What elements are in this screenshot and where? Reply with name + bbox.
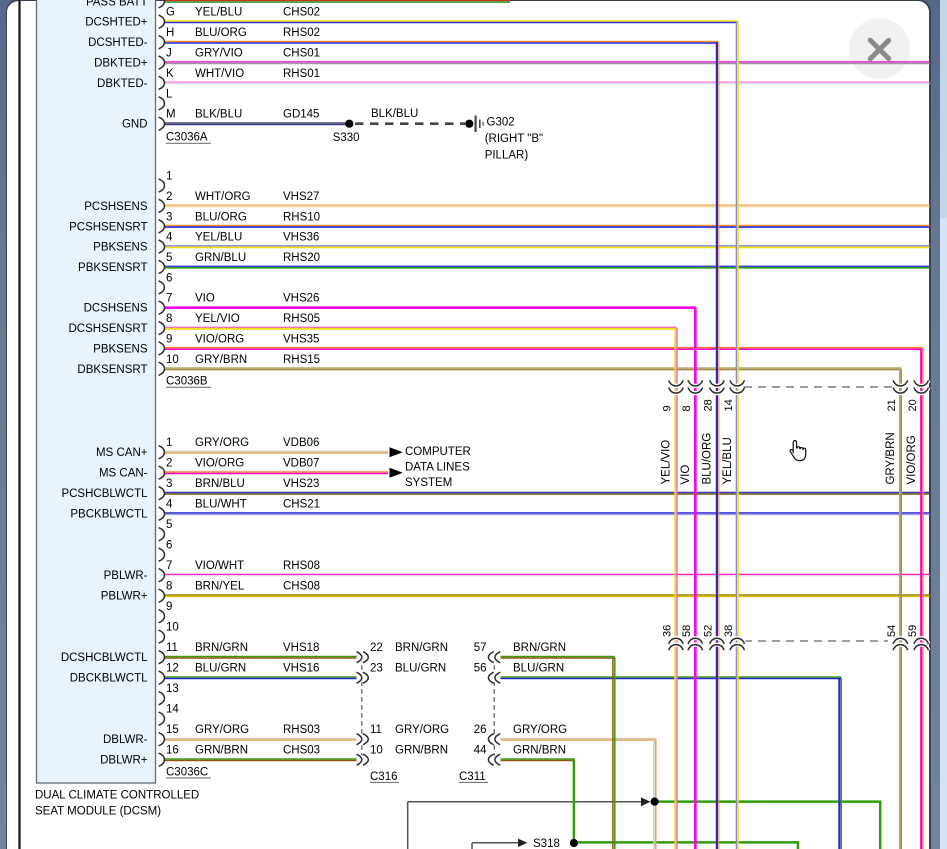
svg-text:BLU/ORG: BLU/ORG (702, 433, 714, 485)
svg-text:VIO: VIO (195, 293, 215, 305)
svg-text:44: 44 (474, 745, 487, 757)
svg-text:DATA LINES: DATA LINES (405, 462, 470, 474)
svg-text:VHS18: VHS18 (283, 642, 319, 654)
svg-text:VHS26: VHS26 (283, 293, 319, 305)
svg-text:MS CAN-: MS CAN- (99, 468, 148, 480)
svg-text:(RIGHT "B": (RIGHT "B" (485, 133, 543, 145)
svg-text:4: 4 (166, 232, 173, 244)
svg-text:3: 3 (166, 478, 172, 490)
svg-text:8: 8 (166, 313, 172, 325)
svg-text:DCSHTED-: DCSHTED- (88, 37, 148, 49)
svg-text:PBCKBLWCTL: PBCKBLWCTL (70, 509, 148, 521)
svg-text:BRN/GRN: BRN/GRN (513, 642, 566, 654)
svg-text:GRY/ORG: GRY/ORG (195, 437, 249, 449)
svg-text:21: 21 (886, 399, 898, 411)
svg-text:VIO/ORG: VIO/ORG (195, 458, 244, 470)
svg-text:1: 1 (166, 171, 172, 183)
svg-text:56: 56 (474, 663, 487, 675)
svg-text:DBLWR-: DBLWR- (103, 734, 148, 746)
svg-text:15: 15 (166, 724, 179, 736)
svg-text:9: 9 (662, 405, 674, 411)
svg-text:VIO/WHT: VIO/WHT (195, 560, 244, 572)
svg-text:DCSHTED+: DCSHTED+ (85, 17, 148, 29)
svg-text:GD145: GD145 (283, 109, 319, 121)
svg-text:CHS03: CHS03 (283, 745, 320, 757)
svg-text:DBLWR+: DBLWR+ (100, 755, 148, 767)
svg-text:GRN/BRN: GRN/BRN (513, 745, 566, 757)
svg-text:C311: C311 (459, 771, 486, 783)
svg-text:6: 6 (166, 272, 172, 284)
svg-text:7: 7 (166, 293, 172, 305)
svg-text:13: 13 (166, 683, 179, 695)
svg-text:RHS02: RHS02 (283, 27, 320, 39)
svg-text:GRN/BRN: GRN/BRN (395, 745, 448, 757)
svg-text:9: 9 (166, 601, 172, 613)
svg-text:RHS08: RHS08 (283, 560, 320, 572)
svg-text:11: 11 (166, 642, 178, 654)
svg-text:C316: C316 (370, 771, 398, 783)
svg-text:YEL/BLU: YEL/BLU (195, 232, 242, 244)
svg-text:VDB06: VDB06 (283, 437, 319, 449)
svg-text:RHS20: RHS20 (283, 252, 320, 264)
svg-text:VHS35: VHS35 (283, 333, 319, 345)
svg-text:GRY/ORG: GRY/ORG (195, 724, 249, 736)
svg-text:DBKSENSRT: DBKSENSRT (77, 364, 147, 376)
svg-text:CHS02: CHS02 (283, 7, 320, 19)
svg-text:YEL/VIO: YEL/VIO (195, 313, 240, 325)
svg-text:PCSHSENS: PCSHSENS (84, 201, 148, 213)
svg-text:58: 58 (681, 625, 693, 637)
svg-text:RHS03: RHS03 (283, 724, 320, 736)
svg-text:GRY/VIO: GRY/VIO (195, 48, 243, 60)
svg-text:5: 5 (166, 519, 172, 531)
svg-text:10: 10 (370, 745, 383, 757)
svg-text:6: 6 (166, 540, 172, 552)
svg-text:K: K (166, 68, 174, 80)
svg-text:BLK/BLU: BLK/BLU (371, 108, 418, 120)
svg-text:10: 10 (166, 622, 179, 634)
svg-text:BRN/GRN: BRN/GRN (195, 642, 248, 654)
svg-text:MS CAN+: MS CAN+ (96, 447, 148, 459)
svg-text:GRY/ORG: GRY/ORG (513, 724, 567, 736)
svg-text:BLU/WHT: BLU/WHT (195, 499, 247, 511)
svg-text:BLK/BLU: BLK/BLU (195, 109, 242, 121)
svg-text:C3036C: C3036C (166, 766, 208, 778)
svg-text:28: 28 (703, 399, 715, 411)
svg-text:DCSHCBLWCTL: DCSHCBLWCTL (61, 652, 148, 664)
svg-text:10: 10 (166, 354, 179, 366)
svg-text:1: 1 (166, 437, 172, 449)
svg-text:H: H (166, 27, 174, 39)
svg-text:BRN/YEL: BRN/YEL (195, 581, 245, 593)
svg-text:26: 26 (474, 724, 487, 736)
svg-text:VHS23: VHS23 (283, 478, 319, 490)
svg-text:DCSHSENSRT: DCSHSENSRT (68, 323, 147, 335)
svg-text:M: M (166, 109, 176, 121)
svg-text:22: 22 (370, 642, 383, 654)
svg-text:2: 2 (166, 191, 172, 203)
svg-text:4: 4 (166, 499, 173, 511)
svg-text:GRY/BRN: GRY/BRN (195, 354, 247, 366)
svg-text:11: 11 (370, 724, 382, 736)
svg-text:BRN/GRN: BRN/GRN (395, 642, 448, 654)
svg-text:G: G (166, 7, 175, 19)
svg-text:PILLAR): PILLAR) (485, 149, 529, 161)
svg-text:BLU/GRN: BLU/GRN (395, 663, 446, 675)
svg-text:WHT/VIO: WHT/VIO (195, 68, 244, 80)
svg-text:12: 12 (166, 663, 179, 675)
svg-text:C3036A: C3036A (166, 132, 208, 144)
svg-text:SEAT MODULE (DCSM): SEAT MODULE (DCSM) (35, 806, 161, 818)
svg-text:DBKTED-: DBKTED- (97, 78, 148, 90)
svg-text:VHS27: VHS27 (283, 191, 319, 203)
svg-text:RHS15: RHS15 (283, 354, 320, 366)
svg-text:14: 14 (723, 399, 735, 411)
svg-text:YEL/BLU: YEL/BLU (722, 437, 734, 484)
svg-text:DCSHSENS: DCSHSENS (84, 303, 148, 315)
svg-text:PBKSENSRT: PBKSENSRT (78, 262, 147, 274)
svg-text:C3036B: C3036B (166, 376, 208, 388)
svg-text:CHS21: CHS21 (283, 499, 320, 511)
svg-text:S318: S318 (533, 838, 560, 849)
svg-text:CHS01: CHS01 (283, 48, 320, 60)
svg-text:BLU/ORG: BLU/ORG (195, 27, 247, 39)
svg-text:BLU/ORG: BLU/ORG (195, 211, 247, 223)
svg-text:DBKTED+: DBKTED+ (94, 58, 148, 70)
svg-text:14: 14 (166, 704, 179, 716)
svg-text:7: 7 (166, 560, 172, 572)
svg-text:CHS08: CHS08 (283, 581, 320, 593)
svg-text:RHS05: RHS05 (283, 313, 320, 325)
svg-text:VDB07: VDB07 (283, 458, 319, 470)
svg-text:5: 5 (166, 252, 172, 264)
svg-text:RHS01: RHS01 (283, 68, 320, 80)
svg-text:VHS36: VHS36 (283, 232, 319, 244)
svg-text:PCSHCBLWCTL: PCSHCBLWCTL (61, 488, 148, 500)
svg-text:GRY/ORG: GRY/ORG (395, 724, 449, 736)
svg-text:S330: S330 (333, 132, 360, 144)
svg-text:54: 54 (886, 625, 898, 637)
svg-text:16: 16 (166, 745, 179, 757)
svg-text:VHS16: VHS16 (283, 663, 319, 675)
svg-text:YEL/VIO: YEL/VIO (661, 440, 673, 485)
svg-text:23: 23 (370, 663, 383, 675)
svg-text:YEL/BLU: YEL/BLU (195, 7, 242, 19)
svg-text:PBKSENS: PBKSENS (93, 343, 148, 355)
svg-text:VIO: VIO (680, 465, 692, 485)
svg-text:DBCKBLWCTL: DBCKBLWCTL (70, 673, 148, 685)
svg-text:52: 52 (703, 625, 715, 637)
svg-text:59: 59 (907, 625, 919, 637)
svg-text:38: 38 (723, 625, 735, 637)
svg-text:RHS10: RHS10 (283, 211, 320, 223)
svg-text:3: 3 (166, 211, 172, 223)
svg-text:GRN/BRN: GRN/BRN (195, 745, 248, 757)
svg-text:GRY/BRN: GRY/BRN (885, 432, 897, 484)
svg-text:PBLWR+: PBLWR+ (101, 591, 148, 603)
svg-text:VIO/ORG: VIO/ORG (195, 333, 244, 345)
svg-text:J: J (166, 48, 172, 60)
svg-text:20: 20 (907, 399, 919, 411)
svg-text:PBKSENS: PBKSENS (93, 242, 148, 254)
svg-text:BLU/GRN: BLU/GRN (513, 663, 564, 675)
svg-text:VIO/ORG: VIO/ORG (906, 435, 918, 484)
svg-text:8: 8 (166, 581, 172, 593)
svg-text:GRN/BLU: GRN/BLU (195, 252, 246, 264)
svg-text:2: 2 (166, 458, 172, 470)
svg-text:PASS BATT: PASS BATT (86, 0, 148, 8)
svg-text:L: L (166, 88, 173, 100)
svg-text:57: 57 (474, 642, 487, 654)
svg-text:BLU/GRN: BLU/GRN (195, 663, 246, 675)
svg-text:DUAL CLIMATE CONTROLLED: DUAL CLIMATE CONTROLLED (35, 790, 199, 802)
svg-text:G302: G302 (487, 116, 515, 128)
svg-text:WHT/ORG: WHT/ORG (195, 191, 251, 203)
svg-text:8: 8 (681, 405, 693, 411)
svg-text:SYSTEM: SYSTEM (405, 477, 452, 489)
svg-text:GND: GND (122, 119, 148, 131)
svg-text:COMPUTER: COMPUTER (405, 446, 471, 458)
svg-text:36: 36 (662, 625, 674, 637)
svg-text:9: 9 (166, 333, 172, 345)
svg-text:BRN/BLU: BRN/BLU (195, 478, 245, 490)
svg-text:PBLWR-: PBLWR- (104, 570, 148, 582)
svg-text:PCSHSENSRT: PCSHSENSRT (69, 221, 147, 233)
